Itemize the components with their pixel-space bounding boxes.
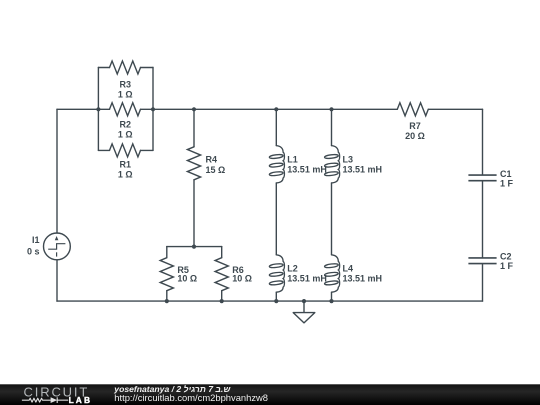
svg-text:13.51 mH: 13.51 mH xyxy=(343,165,383,175)
svg-text:R7: R7 xyxy=(409,121,421,131)
svg-text:13.51 mH: 13.51 mH xyxy=(287,274,327,284)
svg-text:http://circuitlab.com/cm2bphva: http://circuitlab.com/cm2bphvanhzw8 xyxy=(114,392,268,403)
svg-text:10 Ω: 10 Ω xyxy=(232,274,252,284)
svg-text:15 Ω: 15 Ω xyxy=(206,165,226,175)
svg-text:LAB: LAB xyxy=(69,395,93,405)
svg-text:1 Ω: 1 Ω xyxy=(118,130,133,140)
svg-text:1 Ω: 1 Ω xyxy=(118,90,133,100)
svg-text:1 Ω: 1 Ω xyxy=(118,170,133,180)
svg-text:L3: L3 xyxy=(343,154,354,164)
svg-text:0 s: 0 s xyxy=(27,247,40,257)
svg-text:13.51 mH: 13.51 mH xyxy=(343,274,383,284)
svg-text:R4: R4 xyxy=(206,155,218,165)
svg-text:L2: L2 xyxy=(287,264,298,274)
svg-text:I1: I1 xyxy=(32,235,40,245)
svg-text:20 Ω: 20 Ω xyxy=(405,131,425,141)
svg-text:13.51 mH: 13.51 mH xyxy=(287,165,327,175)
svg-text:R1: R1 xyxy=(120,160,132,170)
svg-text:1 F: 1 F xyxy=(500,261,514,271)
svg-text:1 F: 1 F xyxy=(500,178,514,188)
svg-text:R2: R2 xyxy=(120,120,132,130)
svg-text:R3: R3 xyxy=(120,80,132,90)
svg-text:L1: L1 xyxy=(287,154,298,164)
svg-text:10 Ω: 10 Ω xyxy=(177,274,197,284)
svg-text:L4: L4 xyxy=(343,264,354,274)
